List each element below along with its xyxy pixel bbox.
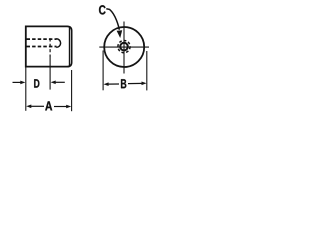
side view outline: [26, 26, 72, 66]
label D: [34, 79, 39, 87]
hole depth hidden vertical line: [49, 38, 51, 57]
label C: [99, 5, 106, 14]
extension line B left: [102, 51, 104, 91]
extension line D (middle): [49, 57, 51, 90]
extension line A right: [71, 70, 73, 111]
end view hidden circle dashed: [118, 41, 130, 53]
extension line B right: [146, 51, 148, 90]
dimension B line with arrows: [104, 82, 147, 87]
leader arrowhead C: [117, 30, 123, 38]
side view right end inner line: [68, 27, 70, 66]
end view vertical centerline: [123, 22, 125, 74]
dimension D left arrow: [13, 81, 26, 85]
end view hole circle: [120, 43, 128, 51]
hidden hole end arc: [56, 39, 60, 48]
hidden hole top line: [27, 38, 57, 40]
dimension A line with arrows: [26, 105, 71, 109]
extension line left (A and D): [25, 68, 27, 111]
hidden hole bottom line: [27, 46, 57, 48]
label B: [121, 79, 126, 88]
end view outer circle: [104, 27, 144, 67]
leader line C: [106, 9, 119, 30]
dimension D right arrow: [51, 81, 65, 85]
label A: [45, 101, 52, 110]
end view horizontal centerline: [99, 46, 149, 48]
